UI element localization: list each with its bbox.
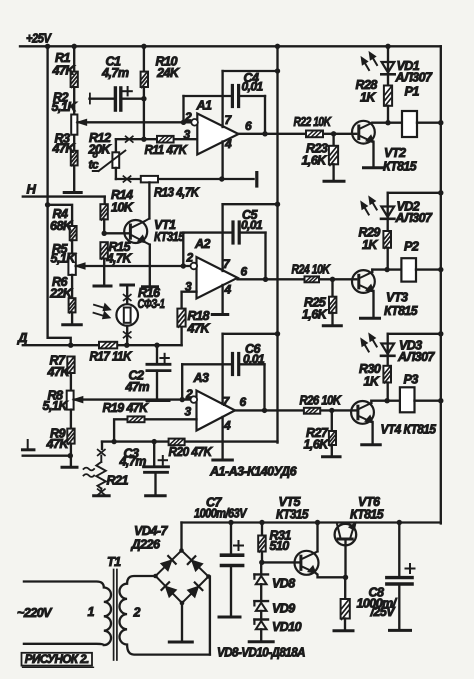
ground under VT6 resistor <box>334 629 353 632</box>
transformer T1 secondary <box>119 576 209 655</box>
transistor VT3 <box>352 270 375 293</box>
svg-text:47K: 47K <box>52 64 76 78</box>
LED VD1 <box>387 46 389 85</box>
wire VT1 base <box>102 231 107 236</box>
op-amp A2 <box>197 257 238 299</box>
potentiometer R8 <box>67 391 74 410</box>
wire R1 column <box>73 46 75 192</box>
resistor R10 <box>143 46 145 139</box>
resistor below VT6 base <box>344 577 346 599</box>
wire A1 pin7 to supply <box>221 71 223 127</box>
wire R8 wiper to A3 pin2 <box>74 398 192 400</box>
svg-text:P1: P1 <box>405 85 420 99</box>
zener VD8 <box>260 562 262 574</box>
svg-text:R21: R21 <box>107 474 129 488</box>
ground under bridge <box>169 641 192 644</box>
wire R2 wiper to A1 pin2 <box>77 121 193 123</box>
ground under R6 <box>63 323 82 326</box>
ground under VT3 <box>361 317 380 320</box>
svg-text:6: 6 <box>240 395 247 409</box>
svg-text:tc: tc <box>89 158 99 172</box>
svg-text:VT3: VT3 <box>386 291 408 305</box>
svg-text:5,1K: 5,1K <box>52 100 78 114</box>
wire A3 pin7 to supply <box>221 334 223 404</box>
svg-text:VT4 КТ815: VT4 КТ815 <box>381 423 437 437</box>
resistor R9 <box>70 410 72 429</box>
capacitor C1 <box>89 94 91 104</box>
svg-text:2: 2 <box>186 251 194 265</box>
svg-text:4: 4 <box>224 137 232 151</box>
svg-text:VT2: VT2 <box>384 146 406 160</box>
relay P2 <box>387 268 401 270</box>
resistor R29 <box>383 231 391 248</box>
wire A1 pin3 line <box>116 138 197 140</box>
svg-text:R24 10K: R24 10K <box>292 263 331 277</box>
ground under VT4 <box>362 443 381 446</box>
wire A1 pin4 <box>221 142 223 180</box>
capacitor C3 <box>153 442 155 466</box>
svg-text:7: 7 <box>223 257 231 271</box>
svg-text:7: 7 <box>225 113 233 127</box>
capacitor C7 <box>230 523 232 554</box>
svg-text:R20 47K: R20 47K <box>169 445 213 459</box>
wire R13 line <box>116 178 254 180</box>
svg-text:КТ315: КТ315 <box>154 230 185 244</box>
svg-text:1,6K: 1,6K <box>302 154 328 168</box>
resistor R26 <box>304 408 320 414</box>
svg-text:24K: 24K <box>156 66 180 80</box>
resistor R11 <box>157 136 174 143</box>
svg-text:А1-А3-К140УД6: А1-А3-К140УД6 <box>209 465 298 479</box>
svg-text:A2: A2 <box>194 237 210 251</box>
resistor R25 <box>331 279 333 296</box>
ground under C3 <box>146 494 166 497</box>
svg-text:VD10: VD10 <box>272 620 302 634</box>
svg-text:КТ815: КТ815 <box>383 160 417 174</box>
svg-text:R22 10K: R22 10K <box>294 115 332 129</box>
svg-text:68K: 68K <box>50 219 73 233</box>
ground under VT1 emitter <box>143 285 158 288</box>
zener VD10 <box>254 618 268 620</box>
ground under VD10 <box>249 640 273 643</box>
resistor R4 <box>70 226 77 240</box>
svg-text:10K: 10K <box>111 201 134 215</box>
wire bridge plus to bus <box>180 523 182 551</box>
resistor R21 <box>101 442 103 449</box>
svg-text:СФЗ-1: СФЗ-1 <box>138 297 165 311</box>
svg-text:1K: 1K <box>364 375 380 389</box>
terminal X mark <box>126 136 133 142</box>
svg-text:VD8-VD10-Д818А: VD8-VD10-Д818А <box>217 646 305 660</box>
svg-text:0,01: 0,01 <box>241 218 263 232</box>
ground under R9 <box>62 466 77 469</box>
svg-text:P3: P3 <box>404 373 419 387</box>
ground A3 pin4 <box>213 459 233 462</box>
op-amp A3 <box>197 391 236 431</box>
capacitor C5 feedback <box>182 233 184 266</box>
svg-text:R13 4,7K: R13 4,7K <box>154 186 200 200</box>
ground under R15 <box>94 285 111 288</box>
resistor R3 <box>71 151 78 166</box>
resistor R20 <box>169 439 185 446</box>
svg-text:2: 2 <box>133 606 141 620</box>
svg-text:1K: 1K <box>362 238 378 252</box>
zener VD9 <box>254 600 268 602</box>
svg-text:3: 3 <box>184 128 191 142</box>
resistor R31 <box>261 523 263 536</box>
wire A2 pin3 <box>182 291 197 293</box>
terminal X mark <box>123 176 130 182</box>
wave marks <box>84 468 95 471</box>
svg-text:2: 2 <box>184 110 192 124</box>
ground under R23 <box>324 180 344 183</box>
resistor R1 <box>71 72 78 87</box>
svg-text:АЛ307: АЛ307 <box>397 350 435 364</box>
svg-text:Д: Д <box>17 330 28 345</box>
wire bridge AC right <box>209 577 211 655</box>
svg-text:3: 3 <box>185 405 192 419</box>
capacitor C8 <box>398 523 400 577</box>
ground symbol left <box>27 440 29 449</box>
svg-text:6: 6 <box>241 265 248 279</box>
wire bridge minus to ground <box>181 603 183 641</box>
wire R4 branch <box>45 202 50 207</box>
ground under R3 <box>64 191 81 194</box>
svg-text:1,6K: 1,6K <box>302 308 328 322</box>
resistor R14 <box>104 197 106 205</box>
svg-text:47K: 47K <box>46 437 70 451</box>
wire to R9 column <box>23 455 71 457</box>
svg-text:5,1K: 5,1K <box>51 252 77 266</box>
svg-text:0,01: 0,01 <box>242 80 264 94</box>
svg-text:47K: 47K <box>47 365 71 379</box>
LED VD3 <box>387 334 389 366</box>
svg-text:VD4-7: VD4-7 <box>134 524 168 538</box>
potentiometer R5 <box>71 240 73 253</box>
resistor R22 <box>306 131 323 138</box>
svg-text:1000m/63V: 1000m/63V <box>194 507 248 521</box>
svg-text:КТ315: КТ315 <box>276 508 309 522</box>
wire R5 wiper to A2 pin2 <box>76 265 193 267</box>
svg-text:R26 10K: R26 10K <box>300 394 342 408</box>
svg-text:R11 47K: R11 47K <box>145 143 188 157</box>
svg-text:47m: 47m <box>125 380 150 394</box>
wire right rail <box>440 46 442 523</box>
ground under R25 <box>323 324 341 327</box>
svg-text:~220V: ~220V <box>17 605 53 620</box>
svg-text:РИСУНОК 2.: РИСУНОК 2. <box>25 652 89 666</box>
svg-text:1: 1 <box>88 605 95 619</box>
wire A3 output <box>235 409 356 411</box>
svg-text:КТ815: КТ815 <box>384 304 418 318</box>
resistor R6 <box>71 275 73 298</box>
wire C3 node line <box>102 440 278 442</box>
svg-text:Н: Н <box>27 182 37 197</box>
resistor R7 <box>67 357 74 374</box>
ground A2 pin4 <box>212 313 228 316</box>
wire left rail <box>48 46 71 346</box>
svg-text:4,7K: 4,7K <box>106 252 133 266</box>
svg-text:R19 47K: R19 47K <box>103 401 149 415</box>
svg-text:/25V: /25V <box>370 605 397 619</box>
svg-text:A3: A3 <box>193 371 209 385</box>
ground under C7 <box>219 616 240 619</box>
ground at R13 line end <box>255 173 258 186</box>
wire VT5 base <box>262 561 300 563</box>
ground under C2 <box>147 399 169 402</box>
wire +25V top rail <box>20 45 441 47</box>
thermistor R12 <box>115 139 117 152</box>
svg-text:6: 6 <box>245 119 252 133</box>
svg-text:20K: 20K <box>88 143 112 157</box>
resistor R18 <box>180 292 182 346</box>
svg-text:VD9: VD9 <box>272 602 295 616</box>
svg-text:Д226: Д226 <box>131 538 161 552</box>
resistor R19 <box>114 419 196 441</box>
svg-text:2: 2 <box>185 387 193 401</box>
resistor R27 <box>331 410 333 431</box>
wire A3 pin4 to ground <box>221 417 223 459</box>
svg-text:T1: T1 <box>107 555 121 569</box>
relay P3 <box>387 400 400 402</box>
svg-text:47K: 47K <box>52 142 76 156</box>
svg-text:КТ815: КТ815 <box>350 508 384 522</box>
resistor R23 <box>332 134 334 146</box>
ground under C8 <box>390 629 411 632</box>
transistor VT2 <box>352 121 375 144</box>
resistor R24 <box>305 276 320 282</box>
svg-text:4,7m: 4,7m <box>119 455 147 469</box>
ground under R21 <box>94 494 110 497</box>
svg-text:5,1K: 5,1K <box>43 399 69 413</box>
figure label box <box>22 653 93 666</box>
capacitor C4 feedback <box>182 96 184 122</box>
svg-text:4,7m: 4,7m <box>101 66 129 80</box>
capacitor C6 feedback <box>181 364 183 399</box>
potentiometer R2 <box>71 115 77 135</box>
wire DC bus <box>182 521 441 523</box>
svg-text:1,6K: 1,6K <box>304 438 330 452</box>
svg-text:R17 11K: R17 11K <box>90 350 133 364</box>
photoresistor R16 <box>121 284 134 287</box>
wire A1 output <box>239 133 357 135</box>
svg-text:0,01: 0,01 <box>243 352 265 366</box>
svg-text:4: 4 <box>224 283 232 297</box>
wire A2 pin7 to supply <box>221 204 223 271</box>
wire A2 pin4 to ground <box>221 285 223 314</box>
svg-text:47K: 47K <box>187 322 211 336</box>
LED VD2 <box>387 193 389 231</box>
wire A2 output <box>238 278 357 280</box>
svg-text:510: 510 <box>270 539 290 553</box>
op-amp A1 <box>197 114 238 155</box>
resistor R17 <box>99 342 117 349</box>
svg-text:4: 4 <box>223 419 231 433</box>
resistor R28 <box>384 86 392 106</box>
resistor R15 <box>100 242 107 258</box>
svg-text:+25V: +25V <box>26 32 52 46</box>
wire op-amp supply bus <box>276 46 278 442</box>
ground under R27 <box>323 455 341 458</box>
capacitor C2 <box>156 345 158 363</box>
resistor R30 <box>383 366 391 383</box>
svg-text:АЛ307: АЛ307 <box>395 71 433 85</box>
ground under VT2 <box>364 166 384 169</box>
svg-text:1K: 1K <box>360 91 376 105</box>
svg-text:22K: 22K <box>49 287 73 301</box>
svg-text:P2: P2 <box>404 240 419 254</box>
svg-text:АЛ307: АЛ307 <box>395 211 433 225</box>
transistor VT1 <box>124 220 147 243</box>
svg-text:VD8: VD8 <box>272 577 295 591</box>
svg-text:A1: A1 <box>196 99 212 113</box>
transistor VT4 <box>351 401 374 424</box>
relay P1 <box>388 122 402 124</box>
resistor R13 <box>141 176 158 183</box>
transformer core <box>113 570 115 661</box>
